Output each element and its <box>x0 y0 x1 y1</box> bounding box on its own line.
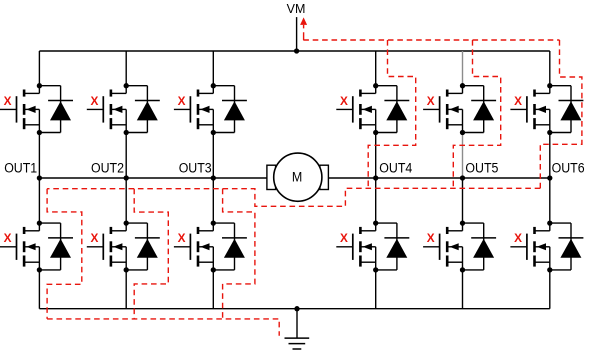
svg-text:OUT2: OUT2 <box>91 161 124 177</box>
svg-text:X: X <box>514 231 522 245</box>
svg-text:X: X <box>340 94 348 108</box>
svg-text:X: X <box>427 231 435 245</box>
svg-text:VM: VM <box>287 2 306 16</box>
svg-text:OUT4: OUT4 <box>379 161 412 177</box>
svg-text:M: M <box>292 170 302 186</box>
svg-text:X: X <box>90 94 98 108</box>
svg-text:X: X <box>427 94 435 108</box>
svg-text:X: X <box>178 94 186 108</box>
svg-text:X: X <box>178 231 186 245</box>
svg-text:X: X <box>90 231 98 245</box>
svg-text:X: X <box>4 231 12 245</box>
svg-text:OUT3: OUT3 <box>179 161 212 177</box>
svg-text:X: X <box>514 94 522 108</box>
svg-text:X: X <box>4 94 12 108</box>
svg-text:X: X <box>340 231 348 245</box>
svg-text:OUT6: OUT6 <box>552 161 585 177</box>
svg-text:OUT5: OUT5 <box>465 161 498 177</box>
svg-text:OUT1: OUT1 <box>4 161 37 177</box>
